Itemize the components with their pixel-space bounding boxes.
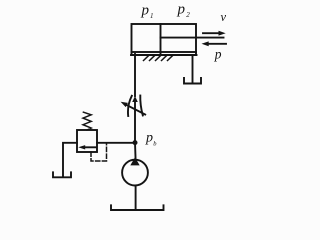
- hatching: [144, 55, 174, 60]
- wire: rod-side drain pipe: [192, 55, 194, 83]
- svg-text:b: b: [153, 141, 157, 148]
- relief valve internal arrow: [83, 146, 96, 148]
- svg-text:p: p: [141, 3, 150, 19]
- wire: pump suction: [135, 186, 137, 210]
- svg-text:p: p: [214, 46, 222, 61]
- pump output arrowhead: [130, 157, 139, 165]
- piston rod: [161, 37, 224, 39]
- svg-text:v: v: [221, 10, 227, 24]
- wire: throttle to junction: [134, 102, 136, 142]
- fixed mount base line: [131, 54, 197, 56]
- piston: [160, 24, 162, 52]
- pilot line (dashed): [91, 144, 107, 161]
- node pb junction: [133, 140, 138, 145]
- load arrow p: [207, 43, 226, 45]
- svg-text:1: 1: [150, 12, 154, 20]
- wire: supply pipe cylinder to throttle: [134, 54, 136, 96]
- tank T2 (relief drain): [53, 172, 71, 177]
- wire: junction to pump: [134, 143, 137, 160]
- velocity arrow v: [203, 32, 220, 34]
- throttle valve arcs: [128, 96, 132, 116]
- svg-text:2: 2: [186, 11, 190, 19]
- throttle adjust arrow: [127, 105, 146, 115]
- cylinder body: [132, 24, 197, 52]
- mount legs: [131, 52, 133, 55]
- svg-text:p: p: [177, 1, 186, 17]
- wire: junction to relief valve: [97, 142, 135, 144]
- wire: relief valve to left tank: [63, 143, 77, 177]
- tank T1 (rod side): [184, 78, 201, 84]
- tank T3 (reservoir): [111, 205, 164, 210]
- relief valve spring: [83, 112, 91, 130]
- pump P1: [122, 160, 148, 186]
- svg-text:p: p: [145, 131, 153, 146]
- relief valve body: [77, 130, 97, 152]
- throttle valve flow arrowhead: [132, 96, 138, 102]
